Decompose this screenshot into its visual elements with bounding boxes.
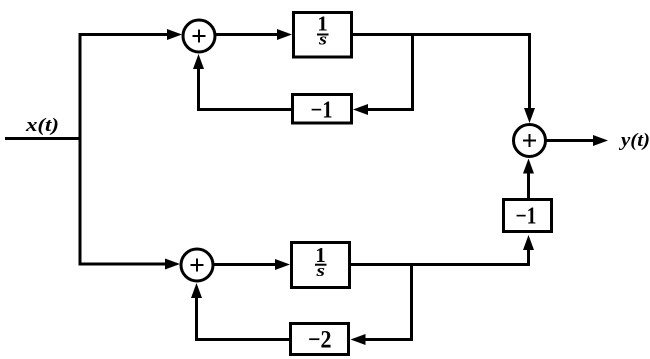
summing junction S2 (right output) (514, 125, 546, 157)
arrowhead into top 1/s box (277, 29, 292, 40)
summing junction S3 (bottom) (181, 249, 213, 281)
top -1 box outline (293, 95, 352, 124)
wire box 1/s (bottom) output right, up to -1 box (351, 244, 529, 265)
S1 plus sign (193, 30, 206, 43)
arrowhead up into right -1 box (523, 235, 534, 250)
integrator block 1/s (bottom) (292, 243, 350, 288)
integrator block 1/s (top) (294, 12, 352, 58)
svg-text:s: s (315, 261, 325, 280)
svg-text:x(t): x(t) (25, 115, 59, 136)
right -1 box outline (504, 200, 552, 232)
gain block -1 (right) (504, 200, 552, 232)
S3 circle (181, 249, 213, 281)
fraction bar (top) (317, 34, 329, 36)
svg-text:−1: −1 (516, 204, 537, 230)
arrowhead into sum1 (167, 29, 182, 40)
gain block -1 (top feedback) (293, 95, 352, 124)
svg-text:y(t): y(t) (619, 130, 650, 151)
wire sum1 to box 1/s (top) (216, 33, 279, 36)
wire -1 (top) output left and up to sum1 (199, 58, 293, 110)
svg-text:−2: −2 (308, 327, 332, 354)
wire -1 (right) output up to sum2 (527, 165, 530, 199)
wire box 1/s (top) output to right corner, down to sum2 (353, 35, 530, 119)
bottom 1/s box outline (292, 243, 350, 288)
svg-text:s: s (318, 30, 328, 49)
S1 circle (183, 20, 215, 52)
arrowhead up into sum1 bottom (193, 54, 204, 69)
gain block -2 (bottom feedback) (291, 324, 349, 355)
S3 plus sign (191, 259, 204, 272)
arrowhead up into sum2 bottom (523, 159, 534, 174)
fraction bar (bottom) (315, 264, 327, 266)
arrowhead into sum3 (165, 259, 180, 270)
wire sum2 output (546, 139, 596, 142)
top 1/s box outline (294, 13, 352, 58)
S2 plus sign (523, 134, 536, 147)
wire input x(t) (5, 137, 82, 140)
wire sum3 to box 1/s (bottom) (214, 263, 277, 266)
svg-text:−1: −1 (311, 98, 333, 124)
S2 circle (514, 125, 546, 157)
arrowhead down into sum2 (524, 108, 535, 123)
wire top feedback branch down-left (360, 36, 413, 110)
arrowhead into bottom 1/s box (275, 259, 290, 270)
arrowhead up into sum3 bottom (191, 283, 202, 298)
wire bottom feedback branch down-left (358, 266, 412, 340)
-2 box outline (291, 324, 349, 355)
arrowhead output y(t) (593, 135, 608, 146)
wire left split: up to top branch, down to bottom branch (80, 35, 177, 265)
arrowhead into -2 box (351, 334, 366, 345)
arrowhead into top -1 box (353, 104, 368, 115)
summing junction S1 (top) (183, 20, 215, 52)
wire -2 output left and up to sum3 (197, 290, 292, 340)
